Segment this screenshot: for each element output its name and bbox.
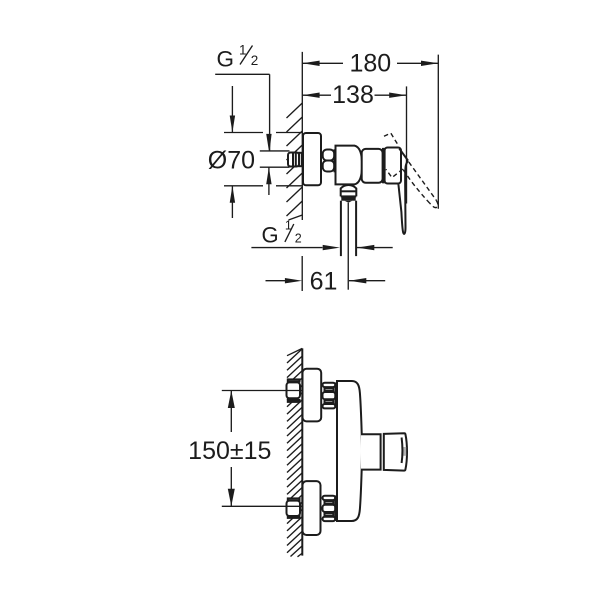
svg-text:2: 2: [295, 231, 302, 245]
svg-text:180: 180: [349, 50, 391, 78]
svg-text:Ø70: Ø70: [208, 146, 255, 174]
svg-text:61: 61: [310, 268, 338, 296]
svg-text:150±15: 150±15: [188, 437, 271, 465]
svg-text:G: G: [217, 47, 235, 72]
svg-text:G: G: [262, 222, 279, 247]
svg-text:2: 2: [251, 53, 259, 68]
svg-text:138: 138: [332, 81, 374, 109]
